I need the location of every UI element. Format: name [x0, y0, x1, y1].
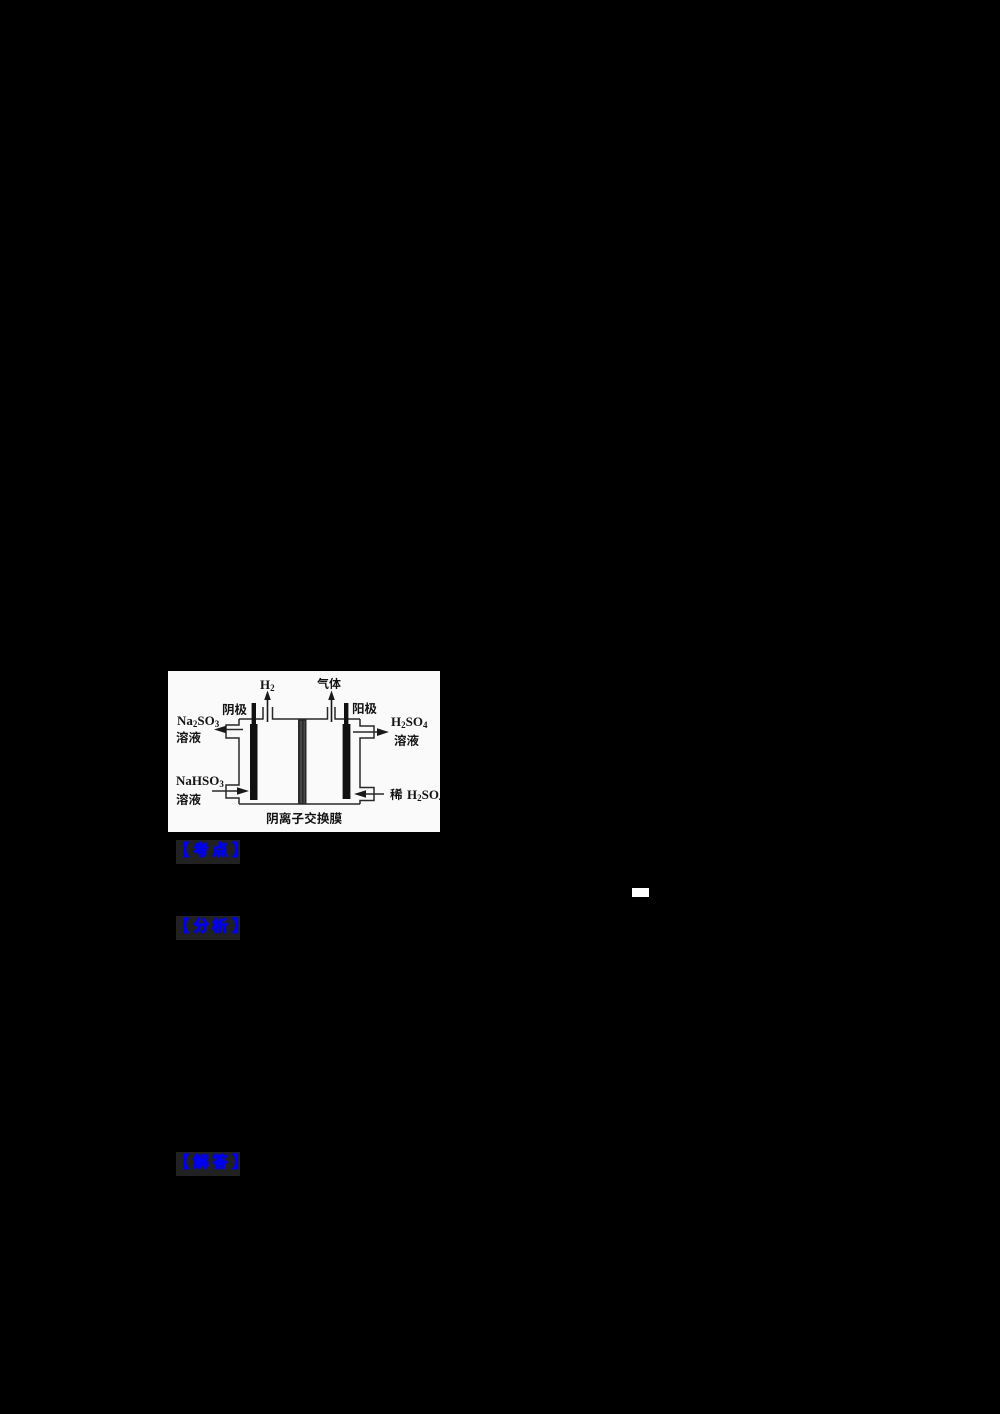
- svg-text:Na2SO3: Na2SO3: [177, 713, 220, 729]
- svg-text:H2SO4: H2SO4: [407, 787, 440, 803]
- svg-text:H2SO4: H2SO4: [391, 714, 428, 730]
- svg-text:H2: H2: [260, 677, 275, 693]
- svg-text:NaHSO3: NaHSO3: [176, 773, 224, 789]
